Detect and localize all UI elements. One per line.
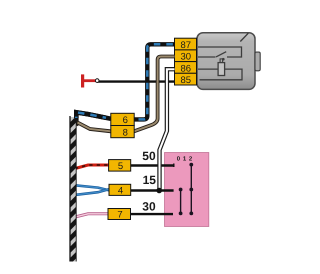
- svg-text:50: 50: [142, 149, 156, 163]
- wire pink harness to connector 7: [75, 214, 108, 217]
- wire brown connector8 to pin30: [134, 57, 175, 132]
- connector 8: [111, 126, 134, 138]
- junction node 15/white wire: [156, 188, 162, 194]
- connector 4: [109, 184, 131, 195]
- svg-text:6: 6: [123, 115, 128, 126]
- relay contact circuit 87-30: [198, 47, 242, 57]
- svg-text:85: 85: [181, 75, 192, 86]
- svg-text:4: 4: [118, 185, 123, 196]
- relay pin 86: [175, 62, 197, 74]
- connector 6: [111, 113, 134, 125]
- relay corner slash: [240, 33, 248, 41]
- wire brown harness to connector 8: [76, 123, 111, 132]
- relay pin 30: [175, 50, 197, 62]
- wire terminal 15 line: [131, 189, 174, 191]
- relay pin 87: [175, 38, 197, 50]
- wire striped cable connector6 to pin87: [134, 44, 175, 119]
- svg-text:86: 86: [181, 63, 192, 74]
- svg-text:30: 30: [142, 200, 156, 214]
- wire terminal 30 line: [131, 213, 174, 215]
- svg-text:15: 15: [143, 173, 157, 187]
- svg-text:8: 8: [123, 127, 128, 138]
- wire white pin86 to junction 15: [160, 69, 175, 189]
- relay armature dot: [222, 58, 225, 61]
- wire battery feed to relay pin 85: [97, 80, 175, 82]
- wire red harness to connector 5: [75, 165, 109, 169]
- relay pin 85: [175, 73, 197, 85]
- ignition switch body: [165, 153, 209, 227]
- wire striped cable harness top to connector 6: [76, 112, 111, 121]
- svg-text:7: 7: [117, 210, 122, 221]
- switch contact column 2: [189, 163, 193, 216]
- contact stub terminal 50: [173, 164, 175, 168]
- relay coil winding circuit 86-85: [198, 69, 242, 80]
- battery terminal +: [81, 74, 84, 87]
- relay K1 body: [197, 33, 255, 90]
- switch contact column 1: [179, 188, 183, 216]
- svg-text:30: 30: [181, 52, 192, 63]
- wire blue pair harness to connector 4: [75, 185, 109, 190]
- terminal connection point: [95, 79, 99, 83]
- relay coil: [218, 63, 225, 76]
- relay coil link: [220, 59, 223, 63]
- relay mounting tab: [255, 52, 260, 71]
- connector 5: [109, 160, 131, 172]
- wire striped cable elbow over harness: [76, 112, 106, 118]
- svg-text:5: 5: [118, 161, 123, 172]
- svg-text:87: 87: [181, 40, 192, 51]
- wire terminal 50 line: [131, 164, 175, 166]
- connector 7: [108, 209, 131, 220]
- harness loom: [70, 117, 77, 262]
